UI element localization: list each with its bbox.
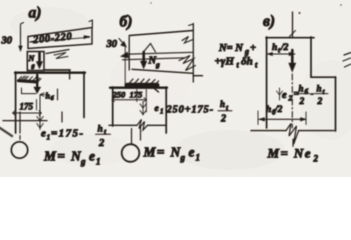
dimension text 30 (part b) — [106, 39, 118, 50]
svg-text:+: + — [250, 43, 256, 54]
column a: top edge — [15, 72, 85, 74]
beam a outline — [28, 20, 92, 49]
svg-text:1: 1 — [160, 108, 164, 116]
formula M = N e2 — [267, 146, 319, 164]
column v: lower right edge — [335, 77, 337, 131]
svg-text:2: 2 — [317, 97, 323, 107]
column v: left edge — [266, 37, 268, 128]
paper speck — [150, 2, 151, 3]
svg-text:в): в) — [263, 13, 275, 30]
e1 tick arrows (part b) — [140, 102, 146, 116]
column v: upper right edge — [310, 37, 312, 77]
column v: step line — [311, 76, 336, 78]
formula e2 = hb/2 - ht/2 — [282, 84, 328, 108]
formula e1 = 175 - ht/2 — [41, 125, 111, 150]
hatched bearing wedge inside column a — [18, 76, 41, 82]
svg-text:e: e — [89, 149, 95, 164]
formula 250+175-ht/2 — [166, 99, 233, 125]
svg-text:e: e — [282, 90, 287, 101]
svg-text:/2: /2 — [274, 105, 283, 115]
dimension text 30 — [1, 36, 13, 47]
svg-text:175: 175 — [20, 102, 34, 112]
formula M = Ng e1 (part a) — [43, 149, 101, 167]
label a) — [29, 5, 42, 22]
svg-text:2: 2 — [313, 154, 319, 164]
formula N = Ng + gHt d ht — [215, 43, 259, 70]
label b) — [120, 14, 133, 31]
svg-text:2: 2 — [288, 94, 293, 103]
svg-text:M= N: M= N — [43, 149, 82, 164]
hinge circle (part a) — [11, 142, 27, 158]
svg-text:175: 175 — [130, 90, 144, 100]
dimension 250 175 (part b) — [112, 90, 147, 113]
svg-text:2: 2 — [299, 97, 305, 107]
label e1 (part b) — [155, 104, 164, 116]
beam b: top edge — [129, 31, 193, 36]
e2 tick (part v) — [277, 88, 283, 100]
svg-text:2: 2 — [220, 114, 226, 125]
svg-text:30: 30 — [1, 36, 13, 47]
formula M = Ng e1 (part b) — [143, 145, 201, 163]
svg-text:h: h — [317, 84, 322, 94]
bottom cut line with break (part v) — [251, 124, 334, 147]
column a: left edge — [15, 72, 17, 133]
beam b: right end stub with breaks — [179, 24, 203, 83]
column a: right edge — [83, 72, 85, 118]
hatched bearing plate (part b) — [127, 79, 159, 92]
svg-text:/2: /2 — [280, 43, 289, 53]
svg-text:б): б) — [120, 14, 133, 31]
svg-text:h: h — [299, 84, 304, 94]
small break mark above arrow (part b) — [143, 44, 156, 53]
broken member mark at right edge — [343, 53, 351, 68]
svg-text:-: - — [311, 90, 314, 100]
paper background — [0, 0, 351, 177]
dimension line ht/2 — [267, 52, 295, 56]
axis above column v — [290, 12, 296, 37]
dimension line hb/2 — [258, 111, 306, 125]
column b: top edge — [110, 87, 167, 89]
svg-text:h: h — [266, 105, 271, 115]
label ht/2 (top) — [272, 43, 289, 55]
force label Ng (part b) — [148, 56, 161, 70]
axis dash-dot (part v) — [291, 74, 293, 128]
load line (part a) — [39, 95, 41, 130]
svg-text:g: g — [155, 60, 160, 69]
support arrowhead at beam left corner (part b) — [121, 52, 129, 58]
svg-text:1: 1 — [96, 157, 101, 167]
dimension text 175 (part a) — [20, 100, 37, 112]
force arrow Ng (part b) — [140, 52, 147, 69]
svg-text:30: 30 — [106, 39, 118, 50]
svg-text:h: h — [220, 99, 225, 109]
axis lines to hinge (part b) — [132, 127, 141, 144]
force arrow N (part v) — [289, 50, 296, 72]
tick line right of h5 — [57, 89, 59, 100]
hinge circle (part b) — [122, 144, 140, 162]
svg-text:N= N: N= N — [218, 43, 243, 54]
dimension line for 175 — [13, 111, 42, 115]
dimension arrow 30 (part b) — [119, 39, 127, 88]
svg-text:+γH: +γH — [215, 56, 235, 68]
beam b: left edge — [128, 37, 130, 71]
bottom cut line (part a) — [3, 120, 47, 122]
bearing box under beam — [27, 52, 44, 71]
label v) — [263, 13, 275, 30]
svg-text:250+175-: 250+175- — [166, 105, 214, 116]
e1 tick arrows (part a) — [37, 117, 43, 129]
svg-text:б: б — [305, 88, 309, 96]
svg-text:δh: δh — [241, 56, 253, 68]
ink speck top — [299, 12, 301, 14]
svg-text:M= Ne: M= Ne — [267, 146, 312, 161]
short tick at x62 (part a) — [61, 112, 63, 122]
svg-text:1: 1 — [196, 153, 201, 163]
bottom cut line with break (part b) — [109, 120, 166, 131]
label =h5 with arrow — [40, 92, 55, 103]
svg-text:g: g — [180, 153, 186, 163]
beam b: bottom line — [132, 69, 193, 73]
force arrow Ng (part a) — [36, 53, 42, 69]
thick reaction arrow inside column a — [34, 75, 41, 94]
dimension 200-220 with arrows — [30, 31, 91, 46]
svg-text:2: 2 — [98, 138, 105, 149]
dimension arrow 30 — [19, 23, 24, 52]
dark streak bottom left corner — [0, 128, 12, 136]
small bracket line inside column a — [22, 88, 37, 94]
column b: right edge — [165, 87, 167, 133]
column b: left edge — [112, 87, 114, 126]
axis of column a — [19, 112, 21, 140]
label hb/2 (bottom) — [266, 105, 283, 117]
paper mottling — [10, 7, 351, 170]
svg-text:h: h — [272, 43, 277, 53]
svg-text:=175-: =175- — [51, 128, 84, 140]
svg-text:а): а) — [29, 5, 42, 22]
force label Ng (part a) — [28, 54, 36, 70]
ink speck top right — [340, 4, 342, 6]
svg-text:M= N: M= N — [143, 145, 182, 160]
svg-text:g: g — [80, 157, 86, 167]
broken adjacent beam (part a) — [45, 50, 70, 80]
svg-text:h: h — [98, 125, 103, 135]
beam b: middle line — [123, 52, 194, 60]
column v: top edge — [266, 37, 314, 39]
svg-text:e: e — [41, 128, 46, 140]
svg-text:e: e — [189, 145, 195, 160]
svg-text:1: 1 — [47, 133, 51, 142]
